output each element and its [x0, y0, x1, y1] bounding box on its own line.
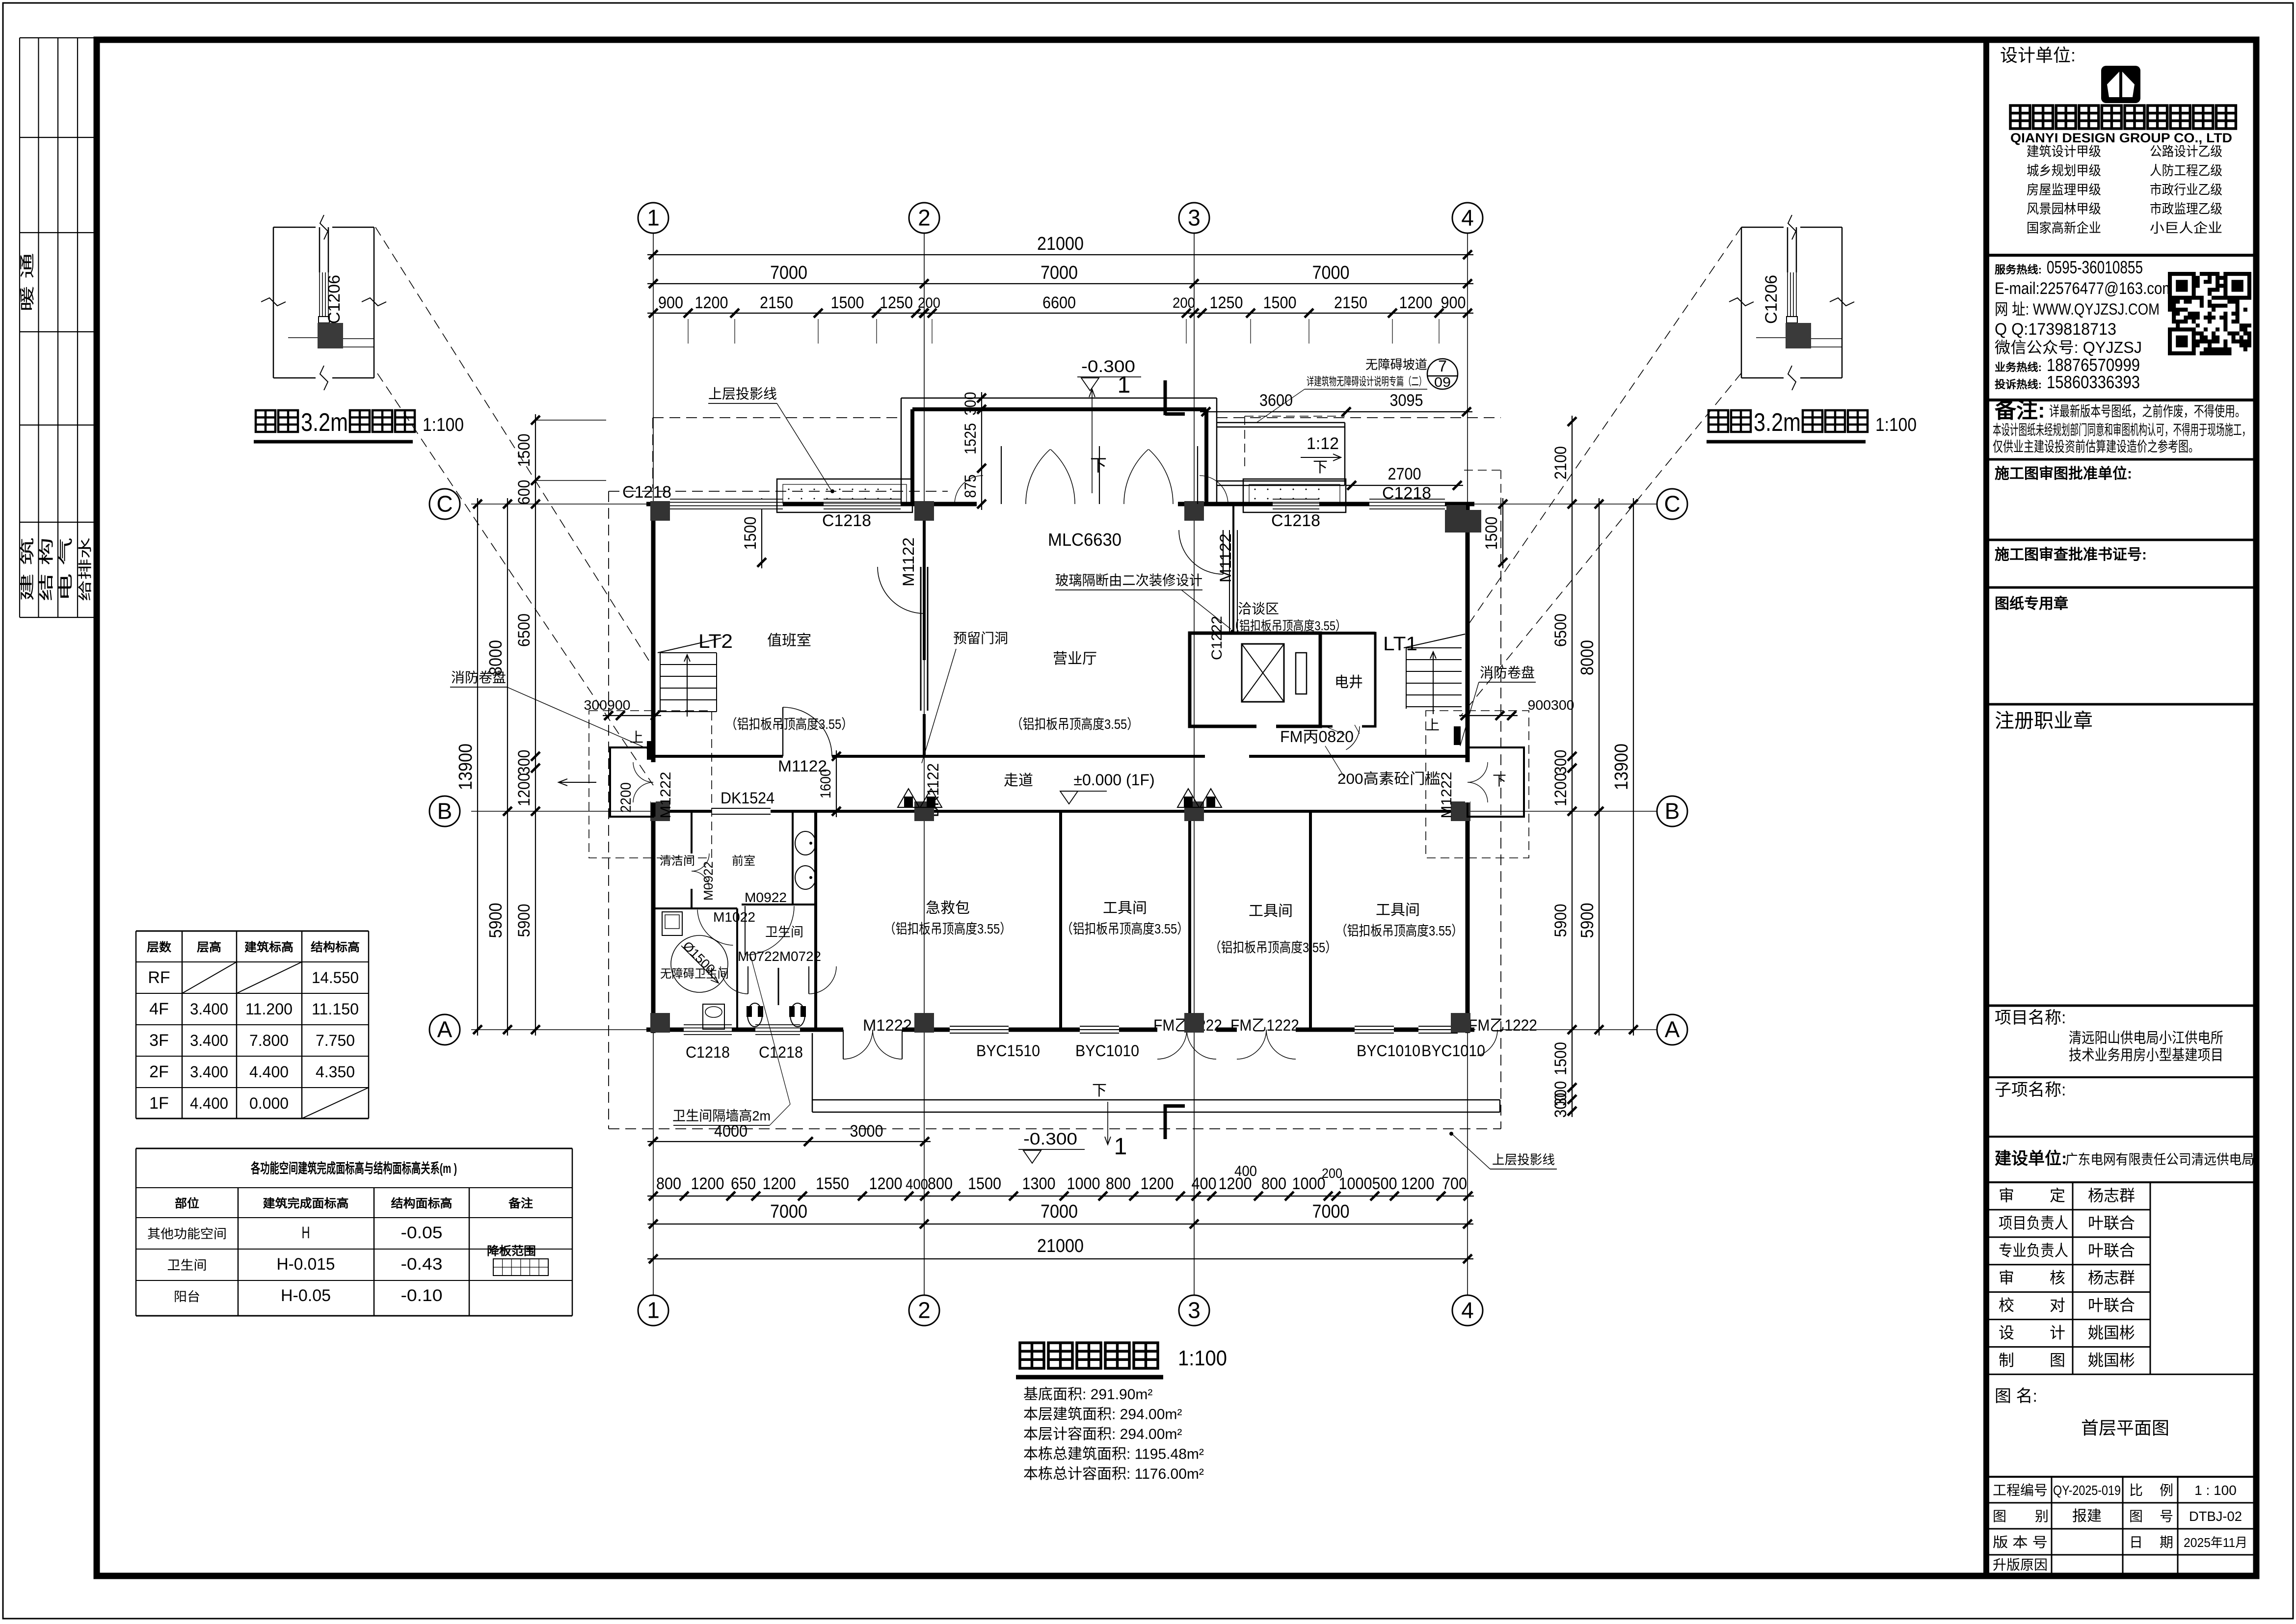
svg-text:专业负责人: 专业负责人 — [1999, 1242, 2068, 1259]
svg-text:3000: 3000 — [850, 1122, 883, 1141]
svg-text:1200: 1200 — [1399, 293, 1433, 312]
svg-text:M1222: M1222 — [863, 1016, 912, 1034]
svg-text:C: C — [436, 491, 453, 517]
svg-text:杨志群: 杨志群 — [2088, 1269, 2135, 1287]
svg-text:C1218: C1218 — [822, 511, 871, 530]
svg-text:8000: 8000 — [1577, 640, 1597, 675]
svg-text:仅供业主建设投资前估算建设造价之参考图。: 仅供业主建设投资前估算建设造价之参考图。 — [1993, 439, 2199, 455]
svg-text:建筑完成面标高: 建筑完成面标高 — [263, 1197, 349, 1210]
svg-text:3.2m: 3.2m — [1754, 408, 1801, 437]
south band partitions — [1059, 811, 1062, 1030]
svg-text:3.400: 3.400 — [190, 1000, 228, 1018]
svg-text:电 气: 电 气 — [58, 537, 74, 601]
toilet entry door M0922 — [747, 906, 795, 955]
svg-text:施工图审图批准单位:: 施工图审图批准单位: — [1995, 465, 2132, 482]
svg-text:900: 900 — [658, 293, 683, 312]
svg-text:建筑设计甲级: 建筑设计甲级 — [2027, 144, 2101, 159]
title block divider — [1983, 40, 1989, 1576]
detail column — [1786, 323, 1811, 348]
svg-text:清远阳山供电局小江供电所: 清远阳山供电局小江供电所 — [2069, 1030, 2223, 1046]
extension lines from grid to dims — [688, 319, 689, 344]
svg-text:（铝扣板吊顶高度3.55）: （铝扣板吊顶高度3.55） — [725, 717, 853, 732]
door M1122 right of hall — [1205, 755, 1249, 758]
FM yi 1222 door 1 — [1157, 1027, 1216, 1032]
svg-text:工具间: 工具间 — [1249, 903, 1293, 919]
svg-text:号: 号 — [2160, 1509, 2173, 1524]
svg-text:市政监理乙级: 市政监理乙级 — [2150, 202, 2222, 216]
svg-text:1200: 1200 — [1219, 1174, 1252, 1193]
svg-text:800: 800 — [928, 1174, 953, 1193]
svg-text:5900: 5900 — [1577, 903, 1597, 938]
BYC1010 openings right pair — [1355, 1027, 1394, 1032]
svg-text:上: 上 — [630, 730, 643, 745]
accessible toilet circle 1500 — [671, 935, 728, 992]
svg-text:计: 计 — [2050, 1324, 2065, 1342]
svg-text:09: 09 — [1434, 374, 1451, 390]
left dashed step — [609, 491, 948, 492]
svg-text:微信公众号: QYJZSJ: 微信公众号: QYJZSJ — [1995, 339, 2142, 356]
svg-text:1200: 1200 — [1141, 1174, 1174, 1193]
svg-text:城乡规划甲级: 城乡规划甲级 — [2027, 163, 2101, 178]
svg-text:设计单位:: 设计单位: — [2000, 45, 2076, 65]
QR code — [2168, 272, 2251, 355]
right top dashed projection — [1464, 470, 1501, 471]
svg-text:21000: 21000 — [1037, 234, 1084, 254]
svg-text:建筑标高: 建筑标高 — [244, 940, 294, 954]
svg-text:定: 定 — [2050, 1187, 2065, 1204]
detail window C1206 — [1787, 227, 1789, 272]
BYC1510 opening — [950, 1027, 1009, 1032]
dim 2700 right top — [1346, 485, 1463, 486]
svg-text:M1122: M1122 — [1217, 533, 1234, 583]
lobby dims 300/1525/875 — [981, 392, 982, 510]
svg-text:7: 7 — [1438, 357, 1447, 375]
svg-text:4F: 4F — [149, 1000, 169, 1018]
svg-text:叶联合: 叶联合 — [2088, 1242, 2135, 1259]
svg-text:（铝扣板吊顶高度3.55）: （铝扣板吊顶高度3.55） — [884, 921, 1012, 936]
svg-text:卫生间隔墙高2m: 卫生间隔墙高2m — [672, 1108, 771, 1123]
svg-text:900: 900 — [1441, 293, 1466, 312]
svg-text:M0922: M0922 — [745, 890, 787, 905]
svg-text:1300: 1300 — [1022, 1174, 1056, 1193]
svg-text:本栋总计容面积: 1176.00m²: 本栋总计容面积: 1176.00m² — [1023, 1466, 1204, 1482]
svg-text:其他功能空间: 其他功能空间 — [147, 1226, 227, 1241]
svg-text:7.750: 7.750 — [316, 1032, 355, 1049]
svg-text:2: 2 — [918, 1298, 931, 1323]
svg-text:杨志群: 杨志群 — [2088, 1187, 2135, 1204]
svg-text:3.400: 3.400 — [190, 1063, 228, 1081]
svg-text:C1222: C1222 — [1209, 616, 1225, 660]
detail title — [1709, 410, 1728, 432]
svg-text:网 址: WWW.QYJZSJ.COM: 网 址: WWW.QYJZSJ.COM — [1995, 300, 2160, 318]
svg-text:升版原因: 升版原因 — [1993, 1557, 2048, 1572]
svg-text:2200: 2200 — [618, 782, 634, 813]
svg-text:M0922: M0922 — [701, 861, 716, 901]
svg-text:Q Q:1739818713: Q Q:1739818713 — [1995, 320, 2116, 339]
horizontal grid lines A B C — [471, 504, 1657, 505]
company logo — [2101, 66, 2140, 103]
elevator door opening — [1256, 724, 1276, 728]
svg-text:审: 审 — [1999, 1187, 2014, 1204]
svg-text:4.350: 4.350 — [316, 1063, 355, 1081]
svg-text:备注:: 备注: — [1995, 399, 2045, 423]
svg-text:7.800: 7.800 — [249, 1032, 289, 1049]
svg-text:4: 4 — [1461, 205, 1474, 231]
svg-text:上层投影线: 上层投影线 — [1492, 1152, 1555, 1167]
svg-text:下: 下 — [1090, 456, 1107, 475]
elevator door indication — [1296, 653, 1307, 694]
svg-text:注册职业章: 注册职业章 — [1995, 710, 2093, 732]
interior partition duty room right wall — [923, 504, 926, 660]
duty room door M1122 top — [878, 567, 924, 613]
svg-text:1:100: 1:100 — [423, 415, 464, 435]
svg-text:工具间: 工具间 — [1376, 902, 1420, 918]
svg-text:300: 300 — [1551, 1093, 1570, 1118]
ramp slope dashes — [1245, 416, 1345, 417]
grid bubbles left — [429, 489, 460, 519]
svg-text:本层建筑面积: 294.00m²: 本层建筑面积: 294.00m² — [1023, 1407, 1182, 1423]
svg-text:2F: 2F — [149, 1063, 169, 1081]
svg-text:无障碍卫生间: 无障碍卫生间 — [660, 967, 729, 981]
svg-text:设: 设 — [1999, 1324, 2014, 1342]
svg-text:1250: 1250 — [1210, 293, 1243, 312]
left exit door M1222 — [651, 762, 656, 802]
svg-text:1500: 1500 — [1482, 517, 1501, 550]
svg-text:制: 制 — [1999, 1351, 2014, 1369]
svg-text:1200: 1200 — [1551, 773, 1570, 806]
svg-text:人防工程乙级: 人防工程乙级 — [2150, 163, 2222, 178]
svg-text:DK1524: DK1524 — [721, 789, 774, 807]
svg-text:2: 2 — [918, 205, 931, 231]
svg-text:（铝扣板吊顶高度3.55）: （铝扣板吊顶高度3.55） — [1011, 717, 1139, 732]
DK1524 opening in B wall — [712, 810, 771, 813]
svg-text:6600: 6600 — [1042, 293, 1076, 312]
svg-text:C1218: C1218 — [1382, 484, 1431, 503]
svg-text:下: 下 — [1092, 1083, 1107, 1099]
svg-text:房屋监理甲级: 房屋监理甲级 — [2027, 183, 2101, 197]
svg-text:200: 200 — [1173, 295, 1195, 311]
svg-text:400: 400 — [1192, 1174, 1217, 1193]
svg-text:1000: 1000 — [1292, 1174, 1326, 1193]
svg-text:层数: 层数 — [147, 941, 172, 954]
svg-text:工程编号: 工程编号 — [1993, 1483, 2048, 1498]
svg-text:QIANYI DESIGN GROUP CO., LTD: QIANYI DESIGN GROUP CO., LTD — [2010, 131, 2232, 145]
svg-text:300: 300 — [515, 750, 534, 775]
svg-text:H-0.05: H-0.05 — [281, 1286, 331, 1305]
lobby door MLC6630 opening — [977, 502, 1178, 507]
svg-text:1000: 1000 — [1339, 1174, 1372, 1193]
porch slab lines — [812, 1099, 1500, 1101]
svg-text:1000: 1000 — [1067, 1174, 1100, 1193]
svg-text:服务热线:: 服务热线: — [1995, 264, 2042, 276]
svg-text:各功能空间建筑完成面标高与结构面标高关系(m ): 各功能空间建筑完成面标高与结构面标高关系(m ) — [250, 1160, 457, 1176]
svg-text:QY-2025-019: QY-2025-019 — [2053, 1483, 2121, 1498]
toilet block partitions — [691, 811, 693, 853]
svg-text:校: 校 — [1999, 1297, 2014, 1314]
svg-text:走道: 走道 — [1004, 772, 1033, 789]
svg-text:3F: 3F — [149, 1031, 169, 1050]
svg-text:M1022: M1022 — [713, 909, 755, 925]
svg-text:BYC1510: BYC1510 — [976, 1042, 1040, 1060]
duty room door M1122 to corridor — [783, 755, 832, 758]
svg-text:基底面积: 291.90m²: 基底面积: 291.90m² — [1023, 1386, 1152, 1403]
svg-text:14.550: 14.550 — [312, 969, 359, 986]
svg-text:6500: 6500 — [1551, 613, 1570, 647]
svg-text:审: 审 — [1999, 1269, 2014, 1287]
svg-text:叶联合: 叶联合 — [2088, 1297, 2135, 1314]
svg-text:13900: 13900 — [455, 744, 476, 790]
svg-text:小巨人企业: 小巨人企业 — [2150, 221, 2222, 236]
svg-text:结构面标高: 结构面标高 — [391, 1197, 453, 1210]
svg-text:RF: RF — [148, 968, 170, 987]
svg-text:1: 1 — [647, 1298, 660, 1323]
svg-text:市政行业乙级: 市政行业乙级 — [2150, 183, 2222, 197]
stair LT1 (right) — [1406, 647, 1462, 648]
company name — [2010, 106, 2030, 129]
svg-text:-0.43: -0.43 — [401, 1255, 443, 1274]
svg-text:4.400: 4.400 — [249, 1063, 289, 1081]
svg-text:3: 3 — [1188, 1298, 1201, 1323]
svg-text:2025年11月: 2025年11月 — [2184, 1535, 2247, 1550]
break symbols — [320, 215, 328, 240]
svg-text:M1122: M1122 — [900, 537, 917, 586]
detail title — [256, 410, 275, 432]
svg-text:15860336393: 15860336393 — [2047, 372, 2140, 392]
elevations relation table — [136, 1148, 572, 1149]
drawing title — [1020, 1343, 1044, 1368]
section divider — [1989, 399, 2253, 401]
svg-text:图: 图 — [1993, 1509, 2006, 1524]
svg-text:上层投影线: 上层投影线 — [708, 386, 777, 401]
hatched spandrel panels — [777, 479, 912, 512]
windows on south wall C1218 — [684, 1024, 732, 1035]
stair LT2 (left) — [660, 652, 717, 653]
dashed leaders right detail — [1467, 227, 1741, 627]
bottom info table — [1989, 1502, 2253, 1504]
svg-text:11.150: 11.150 — [312, 1000, 359, 1018]
svg-text:建设单位:: 建设单位: — [1995, 1149, 2067, 1168]
svg-text:A: A — [1665, 1017, 1680, 1042]
BYC1010 opening 1 — [1080, 1027, 1119, 1032]
svg-text:21000: 21000 — [1037, 1236, 1084, 1256]
svg-text:BYC1010: BYC1010 — [1357, 1042, 1420, 1060]
svg-text:700: 700 — [1442, 1174, 1467, 1193]
svg-text:备注: 备注 — [508, 1197, 533, 1210]
svg-text:300: 300 — [961, 392, 979, 416]
svg-text:300: 300 — [1551, 750, 1570, 775]
left 300 900 dim — [603, 715, 661, 716]
svg-text:广东电网有限责任公司清远供电局: 广东电网有限责任公司清远供电局 — [2065, 1152, 2254, 1167]
svg-text:暖 通: 暖 通 — [20, 253, 36, 312]
svg-text:7000: 7000 — [1041, 263, 1078, 283]
detail column — [318, 323, 343, 348]
svg-text:-0.05: -0.05 — [401, 1224, 443, 1242]
svg-text:1600: 1600 — [818, 769, 834, 799]
svg-text:650: 650 — [731, 1174, 756, 1193]
corridor wall north (y=1541) — [653, 755, 1468, 758]
svg-text:3: 3 — [1188, 205, 1201, 231]
svg-text:3600: 3600 — [1259, 391, 1293, 410]
svg-text:上: 上 — [1426, 718, 1440, 733]
fire hose cabinet right — [1454, 726, 1461, 745]
svg-text:MLC6630: MLC6630 — [1048, 530, 1121, 550]
corridor B wall door triangles — [898, 789, 919, 807]
svg-text:部位: 部位 — [175, 1197, 199, 1210]
svg-text:BYC1010: BYC1010 — [1421, 1042, 1485, 1060]
svg-text:核: 核 — [2050, 1269, 2065, 1287]
section: approval unit — [1989, 458, 2253, 461]
elevator shaft — [1190, 633, 1320, 726]
svg-text:风景园林甲级: 风景园林甲级 — [2027, 202, 2101, 216]
dashed projection rectangle — [653, 417, 901, 418]
ramp body — [1217, 422, 1345, 424]
svg-text:首层平面图: 首层平面图 — [2081, 1418, 2169, 1438]
section divider — [1989, 254, 2253, 257]
svg-text:4.400: 4.400 — [190, 1094, 228, 1112]
svg-text:2150: 2150 — [760, 293, 793, 312]
svg-text:给排水: 给排水 — [78, 537, 93, 601]
svg-text:BYC1010: BYC1010 — [1075, 1042, 1139, 1060]
bottom fine dim chain — [647, 1196, 931, 1197]
svg-text:投诉热线:: 投诉热线: — [1995, 378, 2042, 391]
svg-text:姚国彬: 姚国彬 — [2088, 1351, 2135, 1369]
svg-text:（铝扣板吊顶高度3.55）: （铝扣板吊顶高度3.55） — [1209, 940, 1337, 955]
svg-text:M1222: M1222 — [658, 772, 674, 819]
svg-text:-0.10: -0.10 — [401, 1286, 443, 1305]
left discipline strip table — [19, 38, 20, 617]
svg-text:-0.300: -0.300 — [1023, 1130, 1077, 1148]
corridor wall south row B — [653, 810, 1468, 813]
svg-text:FM丙0820: FM丙0820 — [1280, 728, 1354, 745]
svg-text:姚国彬: 姚国彬 — [2088, 1324, 2135, 1342]
wash basin in accessible room — [662, 912, 682, 935]
svg-text:1: 1 — [647, 205, 660, 231]
svg-text:M1222: M1222 — [1439, 772, 1455, 819]
svg-text:例: 例 — [2160, 1483, 2173, 1498]
svg-text:下: 下 — [1493, 773, 1506, 788]
svg-text:别: 别 — [2035, 1509, 2049, 1524]
diagonal slashes in empty cells — [182, 962, 237, 993]
right dim chains — [1633, 498, 1634, 1036]
accessible wc — [703, 1004, 724, 1029]
stall toilets — [748, 1003, 762, 1027]
svg-text:C1218: C1218 — [759, 1043, 803, 1061]
svg-text:值班室: 值班室 — [767, 633, 811, 649]
svg-text:LT2: LT2 — [698, 631, 733, 652]
exterior door M1222 left room — [843, 1027, 902, 1032]
svg-text:玻璃隔断由二次装修设计: 玻璃隔断由二次装修设计 — [1055, 573, 1202, 588]
cleaning room door M0922 double — [692, 853, 709, 871]
svg-text:国家高新企业: 国家高新企业 — [2027, 221, 2101, 236]
svg-text:1200: 1200 — [869, 1174, 903, 1193]
svg-text:1:12: 1:12 — [1307, 434, 1339, 453]
svg-text:公路设计乙级: 公路设计乙级 — [2150, 144, 2222, 159]
svg-text:4: 4 — [1461, 1298, 1474, 1323]
svg-text:（铝扣板吊顶高度3.55）: （铝扣板吊顶高度3.55） — [1335, 923, 1463, 938]
personnel table — [1989, 1182, 2253, 1183]
electric shaft walls — [1320, 633, 1375, 726]
svg-text:C1218: C1218 — [1271, 511, 1320, 530]
vertical grid lines 1-4 — [653, 233, 654, 1295]
svg-text:预留门洞: 预留门洞 — [953, 631, 1008, 646]
svg-text:E-mail:22576477@163.com: E-mail:22576477@163.com — [1995, 279, 2174, 298]
svg-text:1:100: 1:100 — [1875, 415, 1917, 435]
svg-text:DTBJ-02: DTBJ-02 — [2189, 1509, 2242, 1524]
grid bubbles top — [638, 203, 668, 233]
negotiation area south wall — [1233, 632, 1375, 635]
svg-text:日: 日 — [2129, 1535, 2143, 1550]
svg-text:报建: 报建 — [2072, 1508, 2102, 1524]
svg-text:1500: 1500 — [741, 517, 760, 550]
svg-text:2150: 2150 — [1334, 293, 1367, 312]
svg-text:1: 1 — [1118, 372, 1131, 398]
svg-text:7000: 7000 — [1312, 1201, 1350, 1222]
svg-text:工具间: 工具间 — [1103, 900, 1147, 916]
svg-text:1 : 100: 1 : 100 — [2194, 1483, 2237, 1498]
svg-text:下: 下 — [1313, 459, 1328, 476]
svg-text:结 构: 结 构 — [39, 537, 55, 601]
left exit arrow — [559, 779, 596, 786]
lobby walls inner — [912, 407, 1206, 411]
svg-text:1200: 1200 — [691, 1174, 724, 1193]
exterior wall row C (north) — [646, 502, 1474, 506]
svg-text:1F: 1F — [149, 1094, 169, 1113]
svg-text:1200: 1200 — [763, 1174, 796, 1193]
svg-text:项目负责人: 项目负责人 — [1999, 1214, 2068, 1232]
ramp dims 3600/3095 — [1200, 411, 1472, 412]
detail wall box — [1741, 227, 1784, 228]
svg-text:1200: 1200 — [515, 773, 534, 806]
svg-text:图: 图 — [2129, 1509, 2143, 1524]
svg-text:消防卷盘: 消防卷盘 — [1480, 665, 1535, 680]
svg-text:1200: 1200 — [1401, 1174, 1435, 1193]
left dim chains — [477, 498, 478, 1036]
svg-text:急救包: 急救包 — [926, 900, 970, 916]
svg-text:3095: 3095 — [1390, 391, 1423, 410]
FM yi 1222 door right end — [1475, 1027, 1500, 1032]
svg-text:4000: 4000 — [714, 1122, 748, 1141]
svg-text:结构标高: 结构标高 — [311, 940, 360, 954]
svg-text:3.2m: 3.2m — [301, 408, 348, 437]
dashed outline around left exit — [589, 711, 712, 858]
svg-text:详最新版本号图纸，之前作废，不得使用。: 详最新版本号图纸，之前作废，不得使用。 — [2049, 403, 2245, 420]
svg-text:M0722M0722: M0722M0722 — [738, 949, 821, 964]
svg-text:C1218: C1218 — [686, 1043, 730, 1061]
svg-text:1525: 1525 — [961, 423, 979, 454]
svg-text:5900: 5900 — [515, 904, 534, 937]
exterior wall left (grid1) — [651, 504, 656, 1033]
FM yi 1222 door 2 — [1237, 1027, 1296, 1032]
svg-text:阳台: 阳台 — [174, 1289, 200, 1304]
grid bubbles bottom — [638, 1295, 668, 1326]
svg-text:1550: 1550 — [816, 1174, 849, 1193]
svg-text:900300: 900300 — [1528, 697, 1575, 713]
break symbols — [1788, 215, 1796, 240]
floor level table — [136, 931, 369, 932]
svg-text:C: C — [1664, 491, 1680, 517]
lobby down arrow — [1092, 390, 1093, 493]
svg-text:叶联合: 叶联合 — [2088, 1214, 2135, 1232]
svg-text:H: H — [302, 1224, 310, 1242]
svg-text:详建筑物无障碍设计说明专篇（二）: 详建筑物无障碍设计说明专篇（二） — [1307, 375, 1426, 388]
svg-text:（铝扣板吊顶高度3.55）: （铝扣板吊顶高度3.55） — [1228, 618, 1346, 633]
bottom 4000/3000 dim — [647, 1141, 931, 1142]
svg-text:无障碍坡道: 无障碍坡道 — [1365, 357, 1427, 372]
top overall dim 21000 — [647, 254, 1473, 255]
svg-text:版 本 号: 版 本 号 — [1993, 1535, 2048, 1550]
svg-text:1500: 1500 — [968, 1174, 1001, 1193]
svg-text:降板范围: 降板范围 — [487, 1244, 536, 1258]
